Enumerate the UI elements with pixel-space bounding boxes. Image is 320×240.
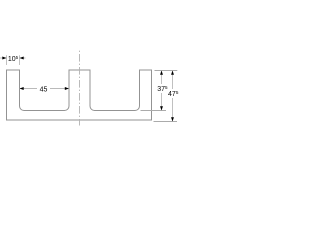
svg-text:475: 475 — [168, 90, 179, 98]
svg-text:105: 105 — [8, 55, 19, 63]
svg-text:45: 45 — [40, 86, 48, 93]
svg-text:375: 375 — [157, 85, 168, 93]
